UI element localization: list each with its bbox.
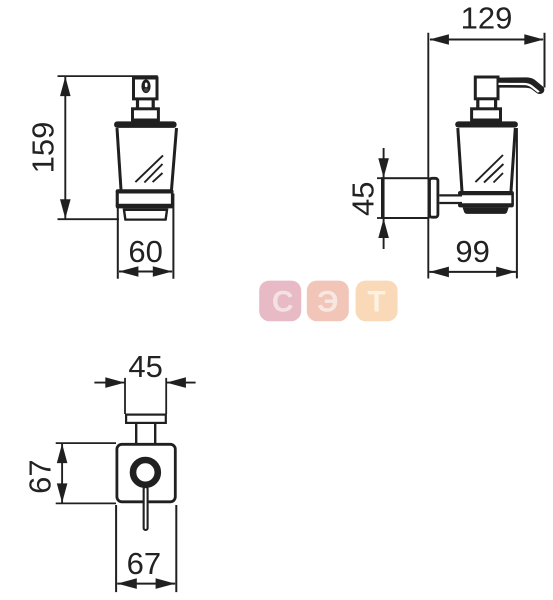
wall plate (side) bbox=[430, 178, 438, 217]
dim 159 line bbox=[64, 76, 66, 219]
dim 67 bottom arrow right bbox=[156, 578, 176, 589]
bottle body left side (side) bbox=[458, 128, 462, 192]
holder body (top view) bbox=[117, 444, 175, 502]
wall line / left extension bbox=[427, 33, 429, 279]
svg-text:67: 67 bbox=[127, 546, 161, 581]
holder band bottom bar (side) bbox=[458, 203, 514, 207]
glass hatch lines (front) bbox=[135, 155, 163, 182]
dim 129 line bbox=[430, 39, 543, 41]
holder band sides (front) bbox=[116, 191, 119, 206]
holder band bottom bar (front) bbox=[116, 204, 174, 209]
bottle body right side (side) bbox=[511, 128, 515, 192]
dim 45 arrow up (side) bbox=[378, 219, 389, 239]
dim 60 arrow left bbox=[119, 266, 138, 277]
svg-text:45: 45 bbox=[128, 349, 162, 384]
svg-text:С: С bbox=[272, 285, 294, 318]
dim 67 bottom line bbox=[117, 583, 175, 585]
svg-text:67: 67 bbox=[22, 459, 57, 493]
dim 60 extension lines bbox=[117, 194, 119, 279]
dim 45 extension stubs (side) bbox=[377, 177, 383, 179]
dim 159 arrow down bbox=[60, 199, 71, 219]
svg-text:Т: Т bbox=[367, 285, 385, 318]
dim 129 arrow left bbox=[429, 34, 449, 45]
arm stem (top view) bbox=[135, 424, 137, 444]
svg-text:129: 129 bbox=[461, 0, 513, 35]
svg-text:45: 45 bbox=[346, 182, 381, 216]
dim 159 extension line bottom bbox=[58, 218, 120, 220]
holder band right side (side) bbox=[511, 193, 514, 205]
dim 99 arrow left bbox=[429, 267, 449, 278]
dim 99 arrow right bbox=[496, 267, 516, 278]
dim 67 left extension lines bbox=[56, 442, 116, 444]
dim 67 bottom arrow left bbox=[117, 578, 137, 589]
holder band top bar (front) bbox=[116, 189, 174, 193]
pump collar (front) bbox=[133, 109, 159, 120]
dim 159 extension line top bbox=[58, 75, 158, 77]
dim 67 left line bbox=[61, 443, 63, 503]
bottom cap (side) bbox=[463, 207, 509, 214]
pump head (front) bbox=[134, 78, 158, 99]
dim 99 line bbox=[429, 271, 516, 273]
bottle body right side (front) bbox=[172, 128, 177, 190]
svg-text:Э: Э bbox=[317, 285, 338, 318]
svg-text:60: 60 bbox=[128, 234, 162, 269]
holder band top bar (side) bbox=[458, 191, 514, 195]
wall bracket box (side) bbox=[382, 178, 429, 218]
pump neck (front) bbox=[136, 99, 139, 110]
dim 45 leader left bbox=[94, 382, 125, 384]
dim 67 left arrow down bbox=[57, 483, 68, 503]
spout bbox=[499, 77, 545, 94]
wall plate (top view) bbox=[126, 415, 166, 423]
bottle body left side (front) bbox=[117, 128, 121, 190]
nozzle opening bbox=[141, 80, 150, 94]
watermark square C bbox=[259, 281, 301, 322]
holder arm (side) bbox=[439, 194, 462, 196]
dim 129 arrow right bbox=[524, 34, 544, 45]
dim 60 arrow right bbox=[153, 266, 173, 277]
dim 159 arrow up bbox=[60, 77, 71, 97]
pump head (side) bbox=[475, 77, 498, 99]
dim 45 extension lines (top view) bbox=[124, 378, 126, 414]
bottom cap (front) bbox=[124, 208, 168, 211]
watermark square T bbox=[356, 281, 398, 322]
bottle flange (side) bbox=[455, 121, 518, 127]
dim 67 left arrow up bbox=[57, 444, 68, 464]
pump neck (side) bbox=[476, 99, 479, 110]
dim 45 arrow down (side) bbox=[378, 158, 389, 178]
dim 45 line (side) bbox=[383, 148, 385, 249]
svg-text:159: 159 bbox=[26, 122, 61, 174]
pump lever (top view) bbox=[144, 487, 148, 530]
bottle flange (front) bbox=[114, 121, 177, 128]
watermark square E bbox=[307, 281, 349, 322]
dim 45 arrow pointing right bbox=[105, 377, 125, 388]
dim 99 right extension bbox=[516, 128, 518, 278]
dim 45 leader right bbox=[166, 382, 195, 384]
dim 45 arrow pointing left bbox=[166, 377, 186, 388]
pump collar (side) bbox=[472, 109, 501, 120]
dim 67 bottom extension lines bbox=[115, 505, 117, 592]
holder band left wall (side) bbox=[458, 192, 462, 196]
glass hatch lines (side) bbox=[475, 155, 503, 182]
svg-text:99: 99 bbox=[455, 234, 489, 269]
dim 129 right extension bbox=[544, 33, 546, 88]
dim 60 line bbox=[119, 271, 172, 273]
holder ring (top view) bbox=[133, 460, 158, 485]
